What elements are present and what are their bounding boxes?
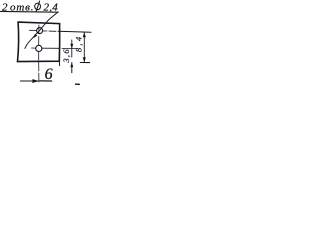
dimension 8,4 bottom arrowhead (down) [83, 57, 86, 62]
horizontal centerline lower hole (extension to dim) [32, 47, 77, 50]
dimension 3,6 top arrowhead (down) [70, 44, 73, 49]
label 8,4 (rotated) [73, 36, 83, 52]
dimension 8,4 top arrowhead (up) [83, 32, 86, 37]
hole 2 (lower) [36, 45, 42, 51]
leader line to hole [25, 13, 57, 49]
diameter symbol [35, 3, 41, 10]
label 6 [45, 66, 53, 83]
horizontal centerline upper hole (extension to dim) [29, 30, 56, 31]
dimension 6 arrowhead (right, at centerline) [32, 79, 39, 83]
callout text "2 отв. Ф 2,4" [2, 1, 58, 13]
dimension 6 line (bottom) [20, 80, 39, 82]
svg-text:6: 6 [45, 66, 53, 83]
callout underline [1, 10, 59, 13]
plate outline [18, 22, 60, 62]
hole 1 (upper) [37, 28, 43, 34]
label 3,6 (rotated) [61, 49, 71, 64]
svg-text:8,4: 8,4 [73, 36, 83, 52]
bottom-edge extension line (right, for vertical dims) [80, 62, 89, 64]
dimension 8,4 line [83, 33, 85, 63]
svg-text:3,6: 3,6 [61, 49, 71, 64]
dimension 3,6 line [71, 40, 73, 57]
dimension 3,6 bottom arrowhead (up) [70, 63, 73, 68]
plate right-edge overshoot [58, 61, 60, 65]
leader arrowhead [33, 34, 37, 38]
stray mark bottom right [76, 83, 80, 85]
vertical centerline through holes [38, 25, 40, 82]
